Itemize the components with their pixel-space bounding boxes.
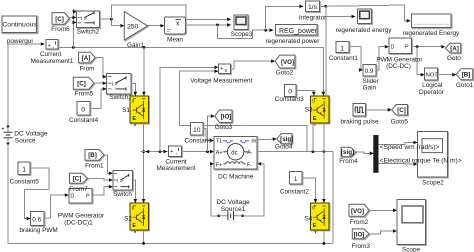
wire: F+ loop to DC Voltage Source1 (210, 162, 219, 216)
wire: From1 to Switch in1 (104, 155, 113, 175)
svg-text:Gain: Gain (363, 84, 377, 91)
wire: DC Machine m to Goto4 (257, 137, 277, 141)
wire: PWM1 P up to Switch in3 (92, 185, 113, 195)
Constant1 (329, 42, 359, 63)
wire: Switch1 out to S1 gate (131, 84, 137, 96)
svg-text:x: x (176, 20, 180, 27)
wire: braking pulse to Goto5 (366, 108, 392, 112)
wire: Constant3 to S3 gate (296, 90, 315, 96)
svg-text:S2: S2 (124, 215, 132, 222)
IGBT S1 (122, 96, 149, 123)
svg-text:[VO]: [VO] (281, 59, 294, 66)
Goto2 tag [VO] (275, 55, 295, 76)
svg-text:10: 10 (193, 127, 201, 134)
From4 tag [sig] (339, 147, 358, 165)
svg-text:From7: From7 (69, 186, 88, 193)
wire: From3 to Scope in2 (369, 229, 397, 234)
svg-text:+: + (220, 66, 223, 72)
svg-text:Measurement: Measurement (156, 165, 195, 172)
svg-text:g: g (132, 98, 135, 103)
PWM Generator (DC-DC)1 (58, 186, 105, 227)
svg-text:250: 250 (127, 23, 139, 30)
svg-text:PWM Generator: PWM Generator (58, 212, 105, 219)
Constant3 (275, 84, 305, 103)
wire: Mean out to Scope3 bottom, REG_power, Integrator (186, 5, 304, 39)
wire: S1 m stub to A+ line (133, 123, 167, 154)
wire: CM1 output +DC bus to S3 C (58, 47, 325, 95)
wire: battery - down to bottom bus (8, 143, 333, 243)
wire: S3 E down to A- node and S4 C (322, 123, 326, 203)
svg-text:Switch: Switch (113, 191, 132, 198)
IGBT S4 (304, 203, 329, 230)
svg-text:-: - (176, 151, 178, 157)
NOT Logical Operator (419, 68, 445, 96)
Constant5 (10, 162, 40, 186)
svg-text:Scope: Scope (402, 247, 421, 252)
svg-text:braking pulse: braking pulse (340, 119, 378, 126)
svg-text:1/s: 1/s (308, 4, 318, 11)
svg-text:From3: From3 (351, 243, 370, 250)
svg-text:F+: F+ (216, 162, 222, 168)
wire: Constant5 loop to braking PWM gain (25, 168, 49, 220)
svg-text:Constant2: Constant2 (280, 189, 310, 196)
Switch (113, 171, 133, 198)
svg-text:S1: S1 (122, 107, 130, 114)
svg-text:0: 0 (288, 88, 292, 95)
wire: Constant 10 to TL (203, 129, 214, 143)
svg-text:(DC-DC): (DC-DC) (386, 63, 411, 70)
svg-text:Switch1: Switch1 (109, 94, 132, 101)
svg-text:Constant4: Constant4 (69, 117, 99, 124)
svg-text:Goto2: Goto2 (276, 69, 294, 76)
svg-text:Current: Current (40, 51, 62, 58)
wire: Slider Gain to PWM Generator D (376, 45, 389, 70)
regenerated Energy display (403, 14, 460, 37)
svg-text:Goto5: Goto5 (391, 119, 409, 126)
svg-text:Mean: Mean (167, 37, 183, 44)
REG_power display (266, 24, 321, 45)
Goto4 tag [sig] (275, 134, 293, 151)
From2 tag [VO] (349, 204, 369, 226)
wire: CM out to DC Machine A+ (182, 150, 215, 154)
wire: From5 to Switch1 in2 (94, 81, 107, 85)
wire: Constant4 to Switch1 in3 (90, 87, 107, 108)
svg-text:[B]: [B] (88, 152, 97, 159)
braking pulse generator (340, 103, 378, 125)
svg-text:Source: Source (15, 137, 36, 144)
wire: VM + tap on A+ line (159, 66, 219, 154)
svg-text:E: E (132, 223, 136, 229)
svg-text:P: P (405, 45, 409, 51)
svg-text:Gain1: Gain1 (127, 42, 144, 49)
svg-text:E: E (313, 116, 317, 122)
wire: NOT to Goto1 (437, 73, 456, 77)
svg-text:1: 1 (294, 176, 298, 183)
From6 tag [C] (51, 13, 70, 34)
wire: Switch2 output to Gain1 and Scope3 top (100, 5, 232, 27)
svg-text:DC Voltage: DC Voltage (14, 130, 48, 137)
svg-text:From4: From4 (339, 158, 358, 165)
Scope2 (418, 132, 448, 187)
svg-text:S4: S4 (304, 215, 312, 222)
svg-text:g: g (312, 98, 315, 103)
svg-text:From: From (80, 65, 95, 72)
Scope (397, 200, 426, 252)
svg-text:[IO]: [IO] (221, 114, 232, 121)
svg-text:P: P (86, 194, 90, 200)
svg-text:g: g (132, 205, 135, 210)
svg-text:-: - (53, 45, 55, 51)
Constant4 (69, 102, 99, 124)
Goto3 tag [IO] (215, 110, 233, 131)
svg-text:+: + (1, 127, 4, 133)
svg-text:S3: S3 (305, 107, 313, 114)
svg-text:i >: i > (117, 179, 123, 185)
svg-text:[C]: [C] (397, 107, 406, 114)
wire: Switch out down to S2 gate (133, 180, 137, 203)
svg-text:0.9: 0.9 (365, 68, 374, 75)
Current Measurement1 (31, 40, 74, 66)
svg-text:F-: F- (247, 162, 252, 168)
svg-text:Constant1: Constant1 (329, 55, 359, 62)
svg-text:regenerated Energy: regenerated Energy (403, 30, 460, 37)
wire: Gain1 to Mean (148, 24, 165, 28)
Switch2 (77, 11, 100, 36)
Slider Gain 0.9 (363, 64, 380, 91)
wire: From4 to Mux (356, 152, 374, 156)
Scope3 (231, 15, 253, 38)
wire: bottom bus right end up to A- line (332, 152, 334, 244)
svg-text:powergui: powergui (7, 38, 33, 45)
wire: S2 outputs down to bottom bus (133, 230, 145, 245)
wire: From6 to Switch2 control (70, 16, 77, 20)
wire: From [A] to Switch1 in1 (95, 58, 106, 79)
svg-text:m: m (252, 139, 257, 145)
DC Voltage Source1 battery (216, 199, 250, 220)
svg-text:[sig]: [sig] (341, 149, 354, 156)
svg-text:braking PWM: braking PWM (19, 227, 57, 234)
svg-text:Operator: Operator (419, 89, 445, 96)
powergui block (2, 16, 38, 45)
svg-text:Integrator: Integrator (299, 15, 327, 22)
signal label Speed wm (380, 144, 440, 151)
svg-text:+: + (170, 149, 173, 155)
node: bus tap to Switch2 inputs (72, 9, 77, 49)
DC Machine (214, 137, 257, 181)
svg-text:From2: From2 (350, 219, 369, 226)
From tag [A] (79, 52, 96, 72)
wire: PWM Generator P to Goto and NOT (412, 45, 446, 77)
svg-text:Constant3: Constant3 (275, 96, 305, 103)
From1 tag [B] (85, 150, 104, 170)
svg-text:0.6: 0.6 (32, 216, 41, 223)
svg-text:Measurement1: Measurement1 (31, 58, 74, 65)
svg-text:i >: i > (112, 82, 118, 88)
svg-text:regenerated energy: regenerated energy (336, 27, 393, 34)
svg-text:v: v (225, 68, 228, 74)
From7 tag [C] (70, 173, 88, 183)
Constant2 (280, 172, 310, 196)
svg-text:D: D (70, 194, 74, 200)
svg-text:From5: From5 (75, 91, 94, 98)
svg-text:Goto: Goto (447, 55, 461, 62)
wire: From2 to Scope in1 (369, 209, 397, 213)
Constant 10 (185, 123, 211, 145)
svg-text:A-: A- (247, 150, 253, 156)
wire: Mux out1 to Scope2 in1 (378, 141, 417, 145)
svg-text:[B]: [B] (462, 72, 471, 79)
svg-text:[VO]: [VO] (351, 208, 364, 215)
braking PWM gain 0.6 (19, 212, 57, 234)
IGBT S3 (305, 96, 329, 123)
wire: F- loop to DC Voltage Source1 (243, 162, 265, 216)
svg-text:regenerated power: regenerated power (266, 38, 321, 45)
svg-text:[sig]: [sig] (280, 136, 293, 143)
wire: From7 tag to Switch in2 (88, 178, 113, 182)
wire: Integrator out to regenerated energy scope and display (320, 5, 411, 23)
signal label Electrical torque Te (380, 157, 462, 164)
svg-text:Goto4: Goto4 (275, 143, 293, 150)
DC Voltage Source battery (1, 125, 48, 144)
svg-text:[C]: [C] (73, 176, 82, 183)
wire: Constant1 to Slider Gain (349, 47, 363, 72)
wire: braking PWM out up to PWM1 D (44, 193, 69, 218)
wire: VM output to Goto2 (230, 59, 275, 68)
svg-text:Constant5: Constant5 (10, 178, 40, 185)
wire: long vertical from integrator node down to S3 (325, 6, 327, 95)
svg-text:(DC-DC)1: (DC-DC)1 (64, 219, 93, 226)
svg-text:NOT: NOT (426, 72, 439, 78)
node: bus tap to S1 C (142, 46, 146, 96)
svg-text:REG_power: REG_power (279, 28, 318, 35)
From5 tag [C] (73, 77, 94, 97)
From3 tag [IO] (351, 229, 370, 250)
IGBT S2 (124, 203, 149, 230)
svg-text:DC Voltage: DC Voltage (216, 199, 250, 206)
Gain1 triangle 250 (124, 12, 147, 49)
Goto5 tag [C] (391, 105, 409, 126)
svg-text:1: 1 (22, 166, 26, 173)
svg-text:[A]: [A] (82, 55, 91, 62)
Goto1 tag [B] (456, 69, 474, 89)
svg-text:Scope3: Scope3 (231, 31, 253, 38)
svg-text:i >: i > (81, 16, 87, 22)
svg-text:Voltage Measurement: Voltage Measurement (190, 77, 252, 84)
svg-text:DC Machine: DC Machine (218, 173, 254, 180)
node: A+ tap up to Goto3 (206, 114, 215, 153)
svg-text:A+: A+ (216, 150, 223, 156)
regenerated energy scope (336, 9, 393, 34)
wire: DC Machine A- line to S3/S4 column (257, 150, 333, 153)
svg-text:[C]: [C] (55, 16, 64, 23)
PWM Generator (DC-DC) (376, 38, 423, 70)
svg-text:1: 1 (340, 45, 344, 52)
svg-text:E: E (132, 116, 136, 122)
Voltage Measurement (190, 64, 252, 84)
Mean block (164, 17, 185, 44)
svg-text:[IO]: [IO] (354, 231, 365, 238)
wire: S1 E down through A+ node to S2 C (142, 123, 146, 203)
Current Measurement (156, 146, 195, 172)
svg-text:Continuous: Continuous (2, 22, 37, 29)
wire: VM - to A- line loop (180, 69, 308, 151)
svg-text:Goto3: Goto3 (215, 124, 233, 131)
svg-text:From6: From6 (51, 26, 70, 33)
Goto tag [A] (445, 43, 461, 62)
svg-text:[C]: [C] (77, 81, 86, 88)
wire: Constant2 to S4 gate (302, 178, 317, 203)
Switch1 (107, 73, 133, 101)
svg-text:Scope2: Scope2 (422, 180, 444, 187)
svg-text:Goto1.: Goto1. (456, 82, 474, 89)
svg-text:g: g (312, 205, 315, 210)
wire: battery + up to Current Measurement1 input (8, 42, 45, 126)
svg-text:dc: dc (231, 150, 237, 156)
wire: S4 outputs down to bottom bus (314, 230, 326, 245)
svg-text:+: + (48, 43, 51, 49)
wire: S3 m stub to A- line (313, 123, 316, 151)
Integrator 1/s (299, 1, 327, 22)
svg-text:From1: From1 (85, 162, 104, 169)
svg-text:[A]: [A] (450, 45, 459, 52)
wire: Mux out2 to Scope2 in2 (378, 162, 417, 166)
svg-text:<Speed wm (rad/s)>: <Speed wm (rad/s)> (380, 144, 440, 151)
svg-text:Constant: Constant (185, 138, 211, 145)
Mux demux bar (374, 136, 378, 173)
svg-text:E: E (313, 223, 317, 229)
svg-text:TL: TL (216, 139, 224, 145)
svg-text:Switch2: Switch2 (77, 28, 100, 35)
svg-text:<Electrical torque Te (N m)>: <Electrical torque Te (N m)> (380, 157, 462, 164)
svg-text:0: 0 (81, 106, 85, 113)
svg-text:D: D (391, 45, 395, 51)
